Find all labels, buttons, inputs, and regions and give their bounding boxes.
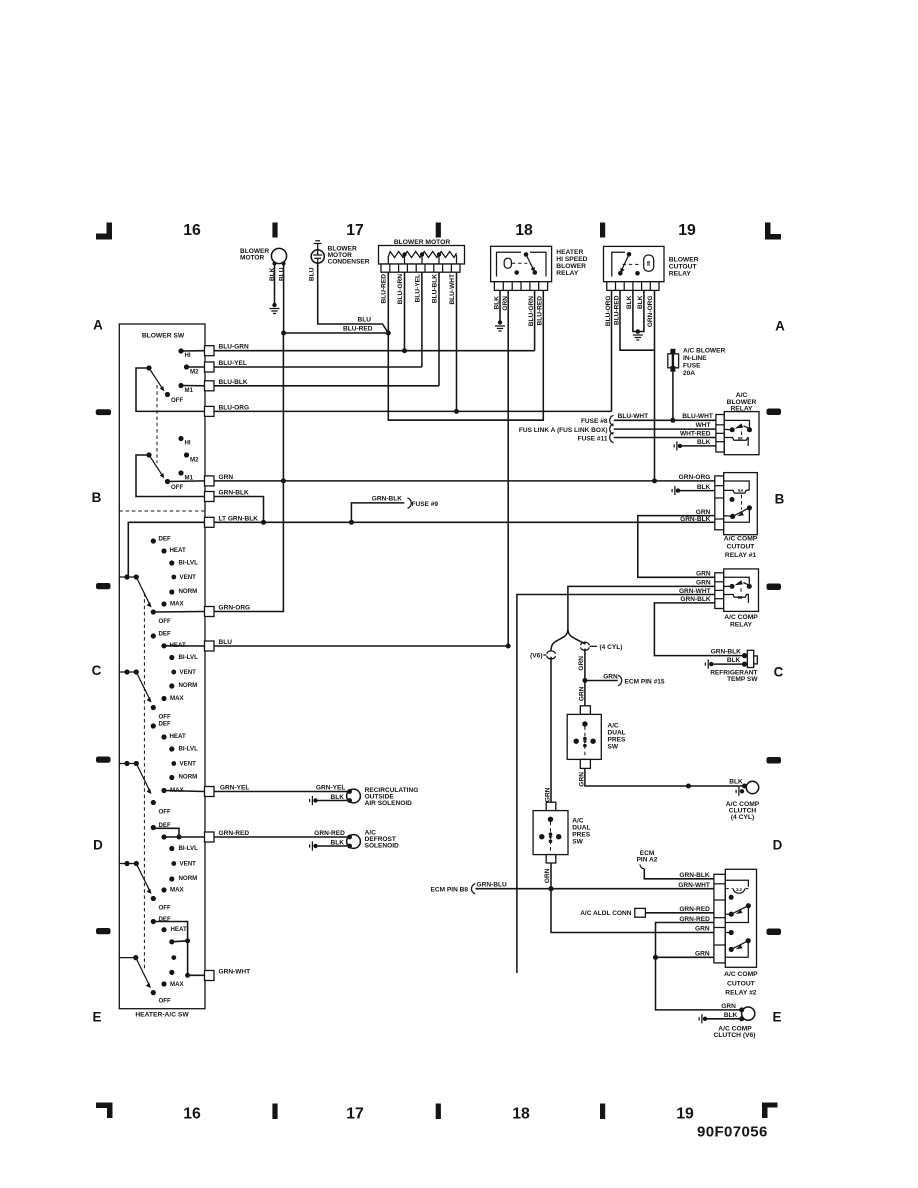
svg-text:BLU: BLU [278, 267, 285, 281]
top tick 17/18 [436, 223, 441, 238]
svg-text:BLU-WHT: BLU-WHT [682, 413, 713, 420]
wire BLU-WHT fuse 8 segment left [388, 419, 543, 421]
switch arm bank 1 [149, 368, 162, 388]
top tick 16/17 [272, 223, 277, 238]
hook fuse 11 [610, 432, 614, 442]
wire BLK motor lead [274, 264, 276, 305]
blower motor resistor box [379, 246, 465, 265]
pres sw V6 contacts [548, 817, 553, 822]
dashed line blower sw [156, 385, 158, 463]
node clutch terminal [742, 784, 747, 789]
svg-text:GRN: GRN [721, 1003, 736, 1010]
switch arm [136, 958, 150, 986]
relay K3 a/c blower relay connector [716, 415, 724, 453]
wire GRN row 2 to fork [568, 586, 715, 629]
contact DEF [151, 633, 156, 638]
node ECM PIN 15 tap [582, 678, 587, 683]
svg-text:D: D [93, 838, 103, 853]
svg-text:FUSE #8: FUSE #8 [581, 418, 608, 425]
wire GRN 4CYL branch [584, 649, 586, 706]
svg-text:PIN A2: PIN A2 [637, 857, 658, 864]
contact VENT [171, 575, 176, 580]
svg-text:GRN-WHT: GRN-WHT [679, 588, 711, 595]
wire OFF to GRN-ORG stub [153, 611, 204, 614]
contact HI [178, 348, 183, 353]
wire GRN-ORG pin down [654, 290, 656, 481]
blower switch box [119, 324, 205, 1009]
svg-text:BLU-YEL: BLU-YEL [414, 274, 421, 302]
relay K6 a/c comp cutout relay 2 box [725, 869, 756, 967]
svg-text:HEAT: HEAT [171, 926, 188, 933]
svg-text:GRN-WHT: GRN-WHT [219, 969, 251, 976]
relay K6 switch arm 2 [729, 947, 734, 952]
ground defrost solenoid [313, 844, 317, 848]
contact M2 [184, 364, 189, 369]
bottom tick 16/17 [272, 1104, 277, 1120]
svg-text:BLK: BLK [637, 295, 644, 309]
svg-text:WHT-RED: WHT-RED [680, 431, 711, 438]
svg-text:GRN-RED: GRN-RED [314, 830, 345, 837]
svg-text:A/C COMP: A/C COMP [724, 971, 758, 978]
contact VENT [171, 670, 176, 675]
contact DEF [151, 825, 156, 830]
contact VENT [171, 955, 176, 960]
svg-text:NORM: NORM [179, 588, 198, 595]
wire BLU-RED motor to resistor node [284, 332, 389, 334]
node motor BLU junction [281, 331, 286, 336]
contact OFF [151, 705, 156, 710]
frame corner mark top-right [765, 223, 781, 240]
relay K2 inner frame [612, 252, 625, 276]
relay K3 coil [724, 438, 748, 446]
svg-text:GRN: GRN [544, 868, 551, 883]
wire BLU-ORG pin down [611, 290, 613, 411]
wire MAX to GRN-YEL stub [164, 791, 205, 792]
wire BLK ground relay 1 [680, 490, 715, 492]
svg-text:GRN-ORG: GRN-ORG [647, 296, 654, 328]
svg-text:BLK: BLK [331, 794, 345, 801]
svg-text:GRN: GRN [696, 571, 711, 578]
svg-text:GRN-BLK: GRN-BLK [680, 596, 710, 603]
svg-text:C: C [774, 665, 784, 680]
common contacts [119, 576, 136, 578]
svg-text:80: 80 [646, 260, 651, 266]
svg-text:M1: M1 [185, 387, 194, 394]
common contacts [119, 671, 136, 673]
contact DEF [151, 919, 156, 924]
svg-text:TEMP SW: TEMP SW [727, 676, 758, 683]
relay K4 coil [724, 490, 750, 493]
svg-text:RELAY: RELAY [556, 270, 579, 277]
ground hi speed relay BLK [498, 320, 502, 324]
blower motor M1 terminals [273, 262, 277, 266]
svg-text:MAX: MAX [170, 601, 185, 608]
relay K3 switch arm [735, 423, 744, 428]
contact MAX [161, 887, 166, 892]
ground a/c blower relay [678, 444, 682, 448]
connector stub GRN-ORG [205, 607, 215, 617]
svg-text:BLK: BLK [727, 657, 741, 664]
hook ECM PIN A2 [640, 864, 644, 869]
svg-text:MOTOR: MOTOR [240, 255, 265, 262]
svg-text:BI-LVL: BI-LVL [179, 654, 199, 661]
wire GRN-WHT comp relay down [517, 595, 715, 974]
svg-text:GRN-BLK: GRN-BLK [219, 490, 249, 497]
wire M1 to BLU-BLK stub [181, 385, 205, 387]
a/c defrost solenoid [347, 835, 361, 849]
svg-text:19: 19 [678, 222, 696, 239]
bridge DEF to GRN-WHT stub [153, 922, 204, 976]
connector stub GRN [205, 476, 215, 486]
relay K2 coil [644, 255, 654, 271]
svg-text:GRN-BLU: GRN-BLU [477, 882, 507, 889]
svg-text:(4 CYL): (4 CYL) [600, 644, 623, 651]
wire common bracket to GRN-BLK stub [136, 455, 205, 497]
svg-text:BLOWER SW: BLOWER SW [142, 333, 185, 340]
svg-text:FUS LINK A (FUS LINK BOX): FUS LINK A (FUS LINK BOX) [519, 427, 608, 434]
svg-text:NORM: NORM [179, 875, 198, 882]
contact HEAT [161, 643, 166, 648]
contact HEAT [161, 834, 166, 839]
relay K5 contacts [724, 585, 732, 587]
svg-text:BLU-RED: BLU-RED [381, 274, 388, 304]
contact NORM [169, 683, 174, 688]
wire GRN-BLK ECM A2 to relay 2 [644, 869, 714, 879]
svg-text:GRN-RED: GRN-RED [679, 916, 710, 923]
wire GRN from relay 1 to comp relay [638, 516, 715, 578]
svg-text:CLUTCH (V6): CLUTCH (V6) [714, 1032, 756, 1039]
ground refrigerant temp sw [709, 662, 713, 666]
frame corner mark top-left [96, 223, 112, 240]
relay K6 coil [725, 888, 733, 890]
resistor taps [402, 252, 406, 256]
relay K4 internal leads [724, 515, 733, 518]
svg-text:AIR SOLENOID: AIR SOLENOID [365, 800, 413, 807]
relay K5 switch arm [734, 580, 743, 585]
relay K2 contacts [627, 252, 632, 257]
capacitor C1 blower motor condenser [311, 250, 324, 263]
aldl connector square [635, 908, 646, 917]
svg-text:BLU-ORG: BLU-ORG [219, 404, 250, 411]
svg-text:IN-LINE: IN-LINE [683, 355, 707, 362]
common contact [119, 957, 136, 959]
svg-text:M2: M2 [190, 457, 199, 464]
a/c dual pres sw (V6) box [533, 811, 568, 855]
svg-text:GRN-BLK: GRN-BLK [680, 516, 710, 523]
svg-text:GRN: GRN [696, 509, 711, 516]
wire BLU-BLK switch to resistor [214, 385, 439, 387]
wire HEAT to BLU stub [164, 645, 205, 647]
svg-text:RELAY #1: RELAY #1 [725, 552, 757, 559]
contact OFF [165, 392, 170, 397]
svg-text:GRN-BLK: GRN-BLK [711, 648, 741, 655]
a/c comp clutch V6 circle [742, 1007, 755, 1020]
wire GRN-BLK switch down to LT GRN-BLK [214, 497, 264, 523]
switch arm [136, 764, 150, 792]
connector bubble (V6) [547, 651, 556, 654]
svg-text:CUTOUT: CUTOUT [727, 544, 756, 551]
svg-text:NORM: NORM [179, 682, 198, 689]
dashed line heater sw [143, 593, 145, 969]
contact DEF [151, 538, 156, 543]
svg-text:BI-LVL: BI-LVL [179, 560, 199, 567]
contact MAX [161, 981, 166, 986]
wire BLK ground refrigerant temp sw [713, 663, 745, 665]
contact NORM [169, 876, 174, 881]
relay K1 dashed link [512, 262, 528, 264]
wire BLU-RED pin down [388, 272, 543, 420]
contact DEF [151, 723, 156, 728]
svg-text:CUTOUT: CUTOUT [669, 264, 698, 271]
svg-text:B: B [775, 492, 785, 507]
relay K6 switch arm 1 [725, 913, 731, 915]
common contact [146, 452, 151, 457]
resistor element zigzag [388, 252, 457, 258]
svg-text:GRN: GRN [695, 950, 710, 957]
wire BLK clutch V6 ground [707, 1018, 742, 1020]
contact NORM [169, 589, 174, 594]
wire M2 to BLU-YEL stub [187, 366, 205, 368]
svg-text:17: 17 [346, 222, 364, 239]
relay K4 dashed link [741, 495, 743, 510]
svg-text:OFF: OFF [159, 618, 172, 625]
svg-text:GRN-BLK: GRN-BLK [679, 872, 709, 879]
contact VENT [171, 761, 176, 766]
wire BLK defrost solenoid ground [317, 845, 347, 847]
relay K4 a/c comp cutout relay 1 connector [715, 476, 724, 530]
svg-text:A: A [93, 318, 103, 333]
connector bubble (4 CYL) [584, 642, 586, 645]
bottom tick 18/19 [600, 1104, 605, 1120]
wire BLU-WHT fuse 8 to a/c blower relay [614, 419, 716, 421]
contact M1 [178, 470, 183, 475]
contact MAX [161, 696, 166, 701]
svg-text:GRN-BLK: GRN-BLK [372, 496, 402, 503]
label (4 CYL) [590, 645, 598, 647]
svg-text:BLOWER: BLOWER [669, 257, 699, 264]
fork split to V6 and 4CYL [551, 630, 568, 651]
common contacts [119, 863, 136, 865]
right margin dash B/C [767, 584, 782, 591]
pres sw V6 dashed [550, 822, 552, 852]
svg-text:20A: 20A [683, 370, 695, 377]
left margin dash B/C [96, 583, 111, 589]
wire GRN row 1 from GRN-BLU node [551, 889, 714, 933]
relay K1 heater hi speed blower relay box [491, 246, 552, 281]
node GRN-BLK terminal [742, 653, 747, 658]
svg-text:GRN-WHT: GRN-WHT [678, 882, 710, 889]
svg-text:CONDENSER: CONDENSER [328, 259, 370, 266]
wire OFF to GRN stub [168, 480, 205, 483]
svg-text:BLOWER: BLOWER [556, 263, 586, 270]
a/c dual pres sw (4cyl) top stub [580, 706, 590, 715]
wire BLU-ORG switch to blower cutout relay [214, 410, 612, 412]
svg-text:GRN: GRN [578, 656, 585, 671]
svg-text:SW: SW [608, 744, 619, 751]
wire LT GRN-BLK switch to a/c comp cutout relay 1 [214, 521, 715, 523]
wire GRN-ORG switch up to motor node [214, 333, 283, 612]
svg-text:90F07056: 90F07056 [697, 1124, 768, 1141]
fuse F1 a/c blower in-line fuse [668, 354, 679, 368]
svg-text:(V6): (V6) [530, 652, 542, 659]
svg-text:HI: HI [185, 352, 191, 359]
svg-text:OFF: OFF [159, 905, 172, 912]
svg-text:HEATER: HEATER [556, 249, 583, 256]
svg-text:DUAL: DUAL [608, 730, 626, 737]
relay K2 connector row [607, 282, 659, 291]
refrigerant temp sw body [747, 650, 753, 667]
ground clutch V6 [703, 1017, 707, 1021]
svg-text:BLU-GRN: BLU-GRN [528, 296, 535, 326]
svg-text:2.2: 2.2 [736, 887, 742, 892]
svg-text:PRES: PRES [572, 832, 590, 839]
switch arm [136, 864, 150, 892]
connector stub LT GRN-BLK [205, 517, 215, 527]
recirculating outside air solenoid [347, 789, 361, 803]
relay K4 a/c comp cutout relay 1 box [724, 473, 758, 535]
left margin dash C/D [96, 757, 111, 763]
ground cutout relay BLK [636, 329, 641, 334]
top tick 18/19 [600, 223, 605, 238]
contact VENT [171, 861, 176, 866]
svg-text:ECM PIN B8: ECM PIN B8 [431, 886, 469, 893]
svg-text:GRN: GRN [603, 674, 618, 681]
relay K1 switch arm [526, 255, 534, 270]
svg-text:BLK: BLK [269, 267, 276, 281]
connector stub BLU-BLK [205, 381, 215, 391]
svg-text:RELAY #2: RELAY #2 [725, 990, 757, 997]
svg-text:A/C: A/C [572, 818, 584, 825]
wire BLU-WHT pin down [456, 272, 458, 411]
svg-text:BLK: BLK [724, 1012, 738, 1019]
contact BI-LVL [169, 846, 174, 851]
wire BLK solenoid ground [317, 800, 347, 802]
a/c dual pres sw (V6) bottom stub [546, 855, 556, 863]
right margin dash A/B [767, 409, 782, 416]
relay K3 dashed tick [741, 432, 743, 436]
svg-text:C: C [92, 663, 102, 678]
wire DEF bridge to GRN-RED stub [153, 828, 204, 838]
wire BLU switch to hi speed relay [214, 645, 508, 647]
node GRN-ORG drop junction [652, 478, 657, 483]
svg-text:D: D [773, 838, 783, 853]
relay K4 switch arm [747, 505, 752, 510]
switch arm bank 2 [149, 455, 162, 475]
a/c dual pres sw (4cyl) box [567, 714, 601, 759]
common contacts [119, 763, 136, 765]
relay K3 a/c blower relay box [724, 412, 759, 455]
connector stub BLU-YEL [205, 362, 215, 372]
pres sw dashed [584, 727, 586, 757]
contact HI [178, 436, 183, 441]
node BLU-WHT tap on BLU-ORG wire [454, 409, 459, 414]
svg-text:OFF: OFF [159, 998, 172, 1005]
connector stub BLU-ORG [205, 406, 215, 416]
heater sw bank 1 feed from LT GRN-BLK [128, 522, 204, 577]
svg-text:FUSE #9: FUSE #9 [412, 501, 439, 508]
svg-text:BLU-RED: BLU-RED [537, 296, 544, 326]
relay K1 contacts [524, 252, 529, 257]
svg-text:GRN: GRN [219, 474, 234, 481]
svg-text:LT GRN-BLK: LT GRN-BLK [219, 515, 259, 522]
relay K2 blower cutout relay box [604, 246, 665, 281]
contact BI-LVL [169, 560, 174, 565]
wire GRN-RED aldl to relay 2 [645, 912, 714, 914]
contact MAX [161, 601, 166, 606]
node GRN-BLU junction [548, 886, 553, 891]
node clutch V6 GRN terminal [739, 1007, 744, 1012]
contact OFF [151, 800, 156, 805]
svg-text:BLU: BLU [358, 316, 372, 323]
svg-text:GRN: GRN [695, 926, 710, 933]
svg-text:BI-LVL: BI-LVL [179, 746, 199, 753]
svg-text:BLU: BLU [308, 267, 315, 281]
svg-text:19: 19 [676, 1106, 694, 1123]
svg-text:BLU-WHT: BLU-WHT [618, 413, 649, 420]
wire BLU motor lead down to node [283, 264, 285, 334]
svg-text:BLU-BLK: BLU-BLK [431, 274, 438, 303]
common contact [146, 365, 151, 370]
svg-text:SOLENOID: SOLENOID [365, 843, 399, 850]
svg-text:FUSE: FUSE [683, 363, 701, 370]
relay K6 contact dot mid [725, 932, 731, 934]
svg-text:MAX: MAX [170, 887, 185, 894]
svg-text:85: 85 [738, 595, 743, 600]
bottom tick 17/18 [436, 1104, 441, 1120]
relay K5 dashed tick [740, 588, 742, 592]
relay K5 a/c comp relay connector [715, 573, 724, 609]
relay K1 coil [504, 258, 511, 268]
node fuse tap [670, 418, 675, 423]
svg-text:HEAT: HEAT [170, 547, 187, 554]
relay K5 coil [724, 595, 749, 603]
contact OFF [151, 990, 156, 995]
svg-text:BLU: BLU [219, 639, 233, 646]
node BLK junction [686, 784, 691, 789]
node BLU-GRN tap [402, 348, 407, 353]
wire WHT-RED to a/c blower relay [614, 437, 716, 439]
svg-text:DEF: DEF [159, 536, 172, 543]
svg-text:MAX: MAX [170, 695, 185, 702]
wire GRN-RED switch to defrost solenoid [214, 836, 350, 838]
node GRN row 2 junction [653, 955, 658, 960]
svg-text:E: E [93, 1010, 102, 1025]
resistor connector row [381, 264, 460, 272]
svg-text:HEAT: HEAT [170, 733, 187, 740]
contact HEAT [161, 927, 166, 932]
connector stub GRN-YEL [205, 787, 215, 797]
connector stub GRN-RED [205, 832, 215, 842]
svg-text:VENT: VENT [180, 574, 197, 581]
left margin dash A/B [96, 409, 111, 415]
svg-text:BI-LVL: BI-LVL [179, 845, 199, 852]
svg-text:ECM PIN #15: ECM PIN #15 [625, 678, 665, 685]
relay K5 internal link [724, 577, 750, 584]
right margin dash C/D [767, 757, 782, 764]
connector stub BLU-GRN [205, 346, 215, 356]
left margin dash D/E [96, 928, 111, 934]
svg-text:WHT: WHT [696, 422, 711, 429]
wire GRN switch to a/c comp cutout relay 1 [214, 480, 715, 482]
svg-text:HI SPEED: HI SPEED [556, 256, 587, 263]
svg-text:OFF: OFF [159, 809, 172, 816]
contact NORM [169, 970, 174, 975]
wire HI to BLU-GRN stub [181, 350, 205, 352]
hook fuse 8 [610, 415, 614, 425]
wire BLU-RED pin down right [620, 290, 655, 350]
wire BLU-BLK pin down [438, 272, 440, 386]
relay K1 connector row [494, 282, 547, 291]
